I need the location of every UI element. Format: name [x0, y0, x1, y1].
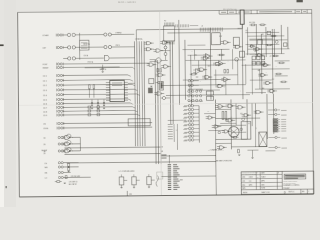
svg-text:C: C [308, 191, 309, 193]
svg-text:SC: SC [257, 177, 259, 179]
svg-text:C41: C41 [245, 30, 248, 32]
svg-text:R21: R21 [255, 51, 258, 53]
svg-text:C9: C9 [161, 147, 163, 149]
svg-text:REV DESCRIPTION: REV DESCRIPTION [223, 9, 237, 11]
svg-text:D: D [284, 190, 286, 194]
svg-text:OTHERWISE NOTED: OTHERWISE NOTED [283, 183, 295, 185]
svg-text:U16: U16 [196, 77, 199, 79]
svg-text:R2: R2 [161, 151, 163, 153]
svg-text:CD 2: CD 2 [43, 85, 47, 87]
svg-text:R4 C2 R6: R4 C2 R6 [249, 22, 255, 24]
svg-text:J.MOE: J.MOE [249, 177, 253, 179]
svg-text:31471-C: 31471-C [288, 191, 295, 193]
svg-text:DRN: DRN [242, 177, 245, 179]
svg-text:2.2K 1/4W C4: 2.2K 1/4W C4 [69, 181, 78, 183]
svg-text:36 012 — 1426 08 1: 36 012 — 1426 08 1 [118, 2, 137, 4]
svg-text:DWG: DWG [261, 184, 264, 186]
svg-text:NONE: NONE [261, 188, 265, 190]
svg-text:2.2K 150 1/4W: 2.2K 150 1/4W [71, 176, 81, 178]
svg-text:U32: U32 [230, 116, 233, 118]
svg-text:135: 135 [129, 194, 132, 196]
svg-text:R40: R40 [262, 88, 265, 90]
svg-text:R33: R33 [258, 70, 261, 72]
svg-text:CD 7: CD 7 [43, 108, 47, 110]
svg-text:K1: K1 [248, 123, 250, 125]
svg-text:CD 8: CD 8 [43, 111, 47, 113]
svg-text:J3: J3 [201, 26, 203, 28]
svg-text:C7: C7 [270, 56, 272, 58]
svg-text:CD 3: CD 3 [43, 90, 47, 92]
svg-text:L.C. COUPLER & MISC: L.C. COUPLER & MISC [119, 171, 136, 173]
svg-text:CHK: CHK [242, 181, 245, 183]
svg-text:U15: U15 [208, 66, 211, 68]
svg-text:CD 5: CD 5 [43, 100, 47, 102]
svg-text:FINISH: FINISH [243, 192, 247, 194]
svg-text:CD 1: CD 1 [43, 81, 47, 83]
svg-text:C12: C12 [272, 79, 275, 81]
svg-text:SHUNT: SHUNT [41, 150, 47, 152]
svg-text:ENG: ENG [242, 185, 245, 187]
svg-text:SHEET 1 OF 1: SHEET 1 OF 1 [261, 192, 270, 194]
svg-text:2-14: 2-14 [249, 181, 252, 183]
svg-text:U14: U14 [195, 55, 198, 57]
svg-text:REV: REV [302, 191, 305, 193]
svg-text:RESET: RESET [43, 68, 50, 70]
svg-text:SEE SHEET 2 FOR NOTES: SEE SHEET 2 FOR NOTES [216, 160, 232, 162]
svg-text:R17: R17 [219, 36, 222, 38]
svg-text:OTHER A: OTHER A [135, 38, 143, 41]
svg-text:U31: U31 [207, 111, 210, 113]
svg-text:OTHER: OTHER [42, 35, 49, 37]
svg-text:U21: U21 [218, 106, 221, 108]
svg-text:CD 0: CD 0 [43, 76, 47, 78]
svg-text:R52: R52 [261, 34, 264, 36]
svg-text:P2: P2 [164, 20, 166, 22]
svg-text:CN BL: CN BL [43, 128, 48, 130]
svg-text:CD 9: CD 9 [43, 115, 47, 117]
svg-text:CD 4: CD 4 [43, 95, 47, 97]
svg-text:CNT B: CNT B [115, 45, 119, 47]
